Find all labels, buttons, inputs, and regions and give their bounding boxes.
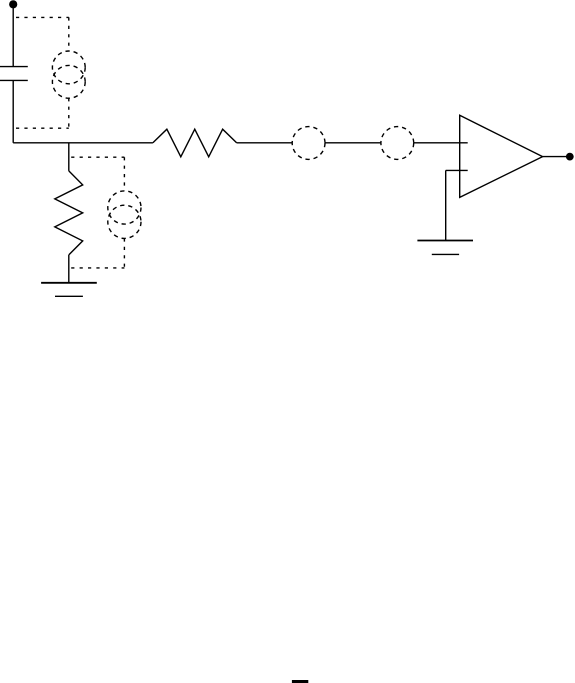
- wire terminal to capacitor: [12, 4, 14, 66]
- wire inverting input to ground: [445, 170, 447, 240]
- wire R2 to Vn1: [237, 142, 293, 144]
- noise current source In2 (dashed, in parallel with R1): [71, 157, 141, 268]
- wire capacitor to input node: [12, 80, 14, 142]
- noise voltage source Vn1 (dashed): [292, 127, 325, 160]
- input terminal node IN: [9, 0, 17, 8]
- op-amp inverting input stub: [446, 169, 468, 171]
- output terminal node OUT: [566, 153, 574, 161]
- ground at op-amp input: [417, 241, 473, 255]
- resistor R2 series horizontal: [153, 129, 237, 157]
- wire op-amp output: [543, 156, 570, 158]
- wire Vn2 to op-amp noninverting input: [414, 142, 468, 144]
- ground under R1: [41, 283, 97, 297]
- noise voltage source Vn2 (dashed): [381, 127, 414, 160]
- op-amp U1: [460, 115, 543, 197]
- resistor R1 shunt vertical: [55, 143, 83, 283]
- capacitor C1: [0, 67, 28, 81]
- noise current source In1 (dashed, in parallel with C1): [16, 17, 85, 128]
- wire Vn1 to Vn2: [325, 142, 381, 144]
- wire main node horizontal: [13, 142, 153, 144]
- footer dash mark: [292, 680, 308, 683]
